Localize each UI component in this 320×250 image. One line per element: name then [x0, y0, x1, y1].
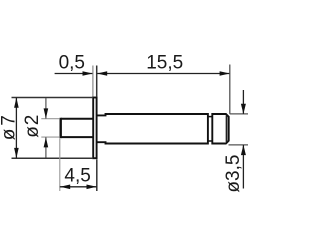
svg-text:0,5: 0,5 — [59, 52, 85, 73]
svg-text:4,5: 4,5 — [64, 165, 90, 186]
svg-text:ø2: ø2 — [22, 114, 43, 138]
svg-text:ø7: ø7 — [0, 112, 20, 140]
svg-text:ø3,5: ø3,5 — [223, 155, 244, 193]
svg-text:15,5: 15,5 — [146, 52, 183, 73]
